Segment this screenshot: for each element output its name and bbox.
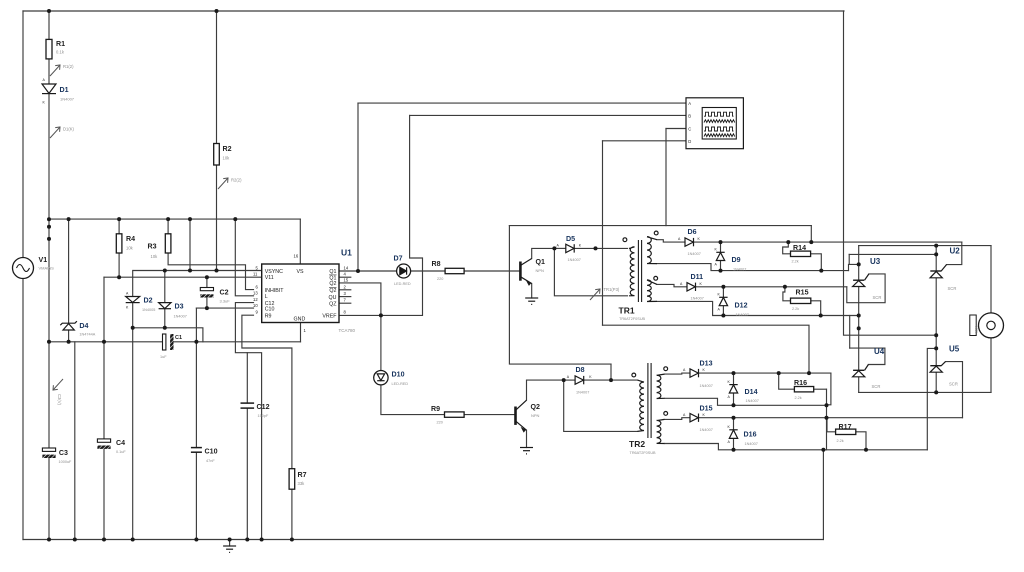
transistor Q2 <box>516 400 527 432</box>
probe R2(2) <box>218 178 228 189</box>
IC U1 TCA780 <box>262 264 339 323</box>
junction at 720.5,242.1 <box>719 240 723 244</box>
junction at 74.8,539.5 <box>73 538 77 542</box>
svg-text:R2: R2 <box>223 145 232 153</box>
svg-text:U5: U5 <box>949 345 960 354</box>
svg-text:GND: GND <box>294 317 306 323</box>
wire R17 left jog <box>827 418 836 432</box>
resistor R15 <box>791 298 811 303</box>
ground main <box>223 546 236 552</box>
svg-text:14: 14 <box>344 266 349 271</box>
diode D12 <box>719 297 727 305</box>
svg-text:2.2k: 2.2k <box>792 260 799 264</box>
svg-text:A: A <box>688 101 691 106</box>
wire scope D horizontal <box>603 140 687 142</box>
svg-text:D14: D14 <box>745 388 758 396</box>
wire R16 right jog <box>814 388 827 390</box>
wire D5 cathode row <box>574 247 627 249</box>
wire R16 left jog <box>779 373 795 389</box>
wire top frame <box>23 10 844 12</box>
junction at 858.7,328.4 <box>857 326 861 330</box>
wire D16 top stub <box>733 418 735 430</box>
junction at 733.5,405.3 <box>732 403 736 407</box>
wire D13 cathode row U4 gate net <box>699 372 831 374</box>
svg-text:R17: R17 <box>839 423 852 431</box>
svg-text:10k: 10k <box>151 254 159 259</box>
wire D15 cathode row U5 gate net <box>699 417 963 419</box>
wire pin3 stub <box>339 296 351 298</box>
resistor R16 <box>794 387 813 392</box>
wire VS pin stub <box>299 219 301 264</box>
svg-text:1N4007: 1N4007 <box>174 315 187 319</box>
capacitor C3 <box>42 448 55 458</box>
svg-text:NPN: NPN <box>531 413 540 418</box>
wire D1 down column <box>48 94 50 220</box>
wire U5 cathode feed riser <box>927 348 936 449</box>
diode D1 <box>42 84 56 94</box>
svg-text:Q2: Q2 <box>531 403 541 411</box>
wire motor bottom feed <box>990 338 992 393</box>
svg-text:1150: 1150 <box>975 326 979 333</box>
wire U3 column <box>858 246 860 281</box>
svg-text:TR1(P3): TR1(P3) <box>604 287 620 292</box>
svg-text:SCR: SCR <box>872 384 881 389</box>
junction at 49,219.3 <box>47 217 51 221</box>
svg-text:R14: R14 <box>793 244 806 252</box>
junction at 936.2,254.4 <box>934 252 938 256</box>
wire TR2 sec2 bottom row <box>665 444 928 450</box>
svg-text:C1: C1 <box>175 335 182 341</box>
transformer TR1 secondary2 coil <box>647 280 657 302</box>
svg-text:Q1: Q1 <box>329 269 336 275</box>
svg-text:2.2k: 2.2k <box>792 307 799 311</box>
junction at 784.9,286.8 <box>783 285 787 289</box>
svg-text:1N4007: 1N4007 <box>60 97 75 102</box>
resistor R9 <box>445 412 465 417</box>
ground Q1 <box>525 298 538 304</box>
svg-text:10k: 10k <box>223 156 231 161</box>
svg-text:1000uF: 1000uF <box>59 460 73 464</box>
wire U2 column <box>935 246 937 271</box>
resistor R3 <box>165 234 171 253</box>
wire column x261 <box>247 353 261 540</box>
wire R8 to Q1 base <box>464 270 520 272</box>
junction at 820.7,315.5 <box>819 314 823 318</box>
svg-text:11: 11 <box>253 272 258 277</box>
wire D14 top stub <box>733 373 735 385</box>
svg-text:V11: V11 <box>265 275 274 281</box>
wire C2 top stub <box>206 277 208 287</box>
wire GND pin stub <box>300 323 302 342</box>
svg-text:VSYNC: VSYNC <box>265 269 283 275</box>
transistor Q1 <box>520 259 531 286</box>
svg-text:D4: D4 <box>79 322 88 330</box>
diode D14 <box>729 385 737 393</box>
wire pin4 stub <box>339 276 351 278</box>
resistor R1 <box>46 39 52 59</box>
wire C4 to bus <box>103 449 105 540</box>
SCR U5 <box>930 362 945 373</box>
svg-text:D6: D6 <box>688 228 697 236</box>
svg-text:LED-RED: LED-RED <box>392 382 409 386</box>
wire U2 gate flag drop <box>947 242 962 265</box>
wire R7 to bus <box>291 489 293 539</box>
svg-text:QZ: QZ <box>329 301 337 307</box>
wire D10 bottom <box>381 385 445 415</box>
SCR U2 <box>930 265 946 278</box>
junction at 168.1,219.1 <box>166 217 170 221</box>
junction at 68.6,219.1 <box>67 217 71 221</box>
svg-text:U1: U1 <box>341 248 352 258</box>
polarity dot TR2 primary <box>632 373 636 377</box>
wire C3 to bus <box>48 458 50 540</box>
svg-text:12: 12 <box>253 297 258 302</box>
junction at 261.6,539.5 <box>260 538 264 542</box>
SCR U4 <box>853 365 869 377</box>
junction at 380.9,315.4 <box>379 313 383 317</box>
motor M1 <box>979 313 1004 338</box>
svg-text:B: B <box>688 114 691 119</box>
junction at 190,219.1 <box>188 217 192 221</box>
capacitor C10 <box>191 448 202 453</box>
junction at 196.4,341.8 <box>194 340 198 344</box>
junction at 611,380.1 <box>609 378 613 382</box>
wire sec1 net to U3 anode <box>849 264 859 270</box>
probe TR1(P3) <box>590 289 600 300</box>
svg-text:2.2k: 2.2k <box>795 396 802 400</box>
diode D6 <box>685 238 694 246</box>
junction at 247.3,539.5 <box>245 538 249 542</box>
junction at 826.5,417.7 <box>825 416 829 420</box>
svg-text:C4: C4 <box>116 439 125 447</box>
svg-text:D5: D5 <box>566 235 575 243</box>
svg-text:U4: U4 <box>874 347 885 356</box>
probe D1(K) <box>50 127 60 138</box>
diode D9 <box>716 252 724 260</box>
junction at 132.7,539.5 <box>131 538 135 542</box>
wire R17 right jog <box>856 432 866 450</box>
wire D8 anode drop to TR2 primary bottom <box>564 380 638 431</box>
svg-text:D2: D2 <box>144 297 153 305</box>
svg-text:C3: C3 <box>59 449 68 457</box>
wire U5 column <box>935 335 937 366</box>
diode D8 <box>575 376 584 384</box>
transformer TR1 primary coil <box>629 247 635 296</box>
wire Q1 collector riser <box>532 248 555 258</box>
junction at 49,11 <box>47 9 51 13</box>
junction at 164.8,270.5 <box>163 269 167 273</box>
wire Q1 output row pin14 <box>339 270 445 272</box>
SCR U3 <box>853 274 869 287</box>
wire motor top feed <box>990 246 992 313</box>
svg-text:TR6AT2F0SUB: TR6AT2F0SUB <box>630 451 657 455</box>
wire bridge bottom row <box>859 391 991 393</box>
LED D7 <box>397 264 411 278</box>
svg-text:1N4005: 1N4005 <box>142 308 155 312</box>
junction at 206.9,277.2 <box>205 275 209 279</box>
svg-text:1N4007: 1N4007 <box>700 428 713 432</box>
svg-text:R9: R9 <box>431 405 440 413</box>
wire U3 to U4 column <box>858 287 860 371</box>
junction at 49,341.8 <box>47 340 51 344</box>
junction at 190,270.5 <box>188 269 192 273</box>
wire Vcc bus <box>49 218 300 220</box>
wire R1 D1 column <box>48 11 50 39</box>
wire R4 top stub <box>118 219 120 234</box>
wire U5 to bridge bottom <box>935 372 937 392</box>
wire row y254 <box>849 253 936 255</box>
svg-text:R3: R3 <box>148 243 157 251</box>
wire row y254 drop <box>848 254 850 264</box>
svg-text:D8: D8 <box>576 366 585 374</box>
oscilloscope XSC1 <box>686 98 743 149</box>
wire D14 bottom stub <box>733 393 735 405</box>
junction at 104,341.8 <box>102 340 106 344</box>
svg-text:0.1k: 0.1k <box>56 50 65 55</box>
svg-text:VREF: VREF <box>322 314 337 320</box>
junction at 206.9,308.1 <box>205 306 209 310</box>
svg-text:TR1: TR1 <box>619 306 635 316</box>
oscilloscope screen <box>702 108 736 140</box>
svg-text:D12: D12 <box>735 302 748 310</box>
svg-text:D9: D9 <box>732 256 741 264</box>
wire bridge top row <box>859 245 991 247</box>
zener D4 <box>60 321 77 330</box>
motor label box <box>970 315 976 336</box>
svg-text:QU: QU <box>329 295 337 301</box>
wire C net left drop to D8 loop <box>509 226 611 365</box>
svg-text:1N4007: 1N4007 <box>746 399 759 403</box>
polarity dot TR1 primary <box>623 238 627 242</box>
capacitor C2 <box>200 288 213 298</box>
diode D5 <box>566 244 574 252</box>
junction at 858.7,264.4 <box>857 262 861 266</box>
wire scope A horizontal <box>358 102 686 104</box>
transformer TR1 secondary1 coil <box>647 237 657 264</box>
wire pin2 stub <box>339 289 351 291</box>
svg-text:D1: D1 <box>60 86 69 94</box>
svg-text:C10: C10 <box>265 307 275 313</box>
resistor R4 <box>116 234 122 253</box>
svg-text:1N4007: 1N4007 <box>745 442 758 446</box>
wire C2 bottom stub <box>206 298 208 309</box>
junction at 723.4,315.5 <box>721 314 725 318</box>
wire gnd row mid <box>174 341 301 343</box>
svg-text:D7: D7 <box>394 255 403 263</box>
svg-text:D11: D11 <box>691 273 704 281</box>
svg-text:NPN: NPN <box>536 268 545 273</box>
resistor R17 <box>836 429 856 434</box>
wire R1 to D1 <box>48 59 50 84</box>
wire U2 cathode to mid <box>935 278 937 335</box>
svg-text:SCR: SCR <box>873 295 882 300</box>
wire V11 row <box>104 276 262 278</box>
wire D4 bottom stub <box>68 330 70 342</box>
svg-text:R2(2): R2(2) <box>231 178 242 183</box>
wire C10 to bus <box>195 452 197 539</box>
svg-text:D10: D10 <box>392 371 405 379</box>
svg-text:LED-RED: LED-RED <box>394 282 411 286</box>
junction at 811.3,242.1 <box>809 240 813 244</box>
svg-text:R9: R9 <box>265 314 272 320</box>
diode D15 <box>690 414 699 422</box>
junction at 733.5,373.1 <box>732 371 736 375</box>
diode D2 <box>126 297 140 303</box>
probe C3(V) <box>53 379 63 390</box>
AC source V1 <box>13 258 34 279</box>
wire x826 strip vertical <box>826 389 828 450</box>
wire D9 bottom stub <box>720 261 722 271</box>
diode D13 <box>690 369 699 377</box>
wire R14 left jog <box>783 242 791 254</box>
svg-text:13: 13 <box>253 290 258 295</box>
resistor R2 <box>214 144 220 166</box>
junction at 788.3,242.1 <box>786 240 790 244</box>
svg-text:0.1uF: 0.1uF <box>116 450 126 454</box>
polarity dot TR2 secondary1 <box>664 367 668 371</box>
junction at 164.8,327.8 <box>163 326 167 330</box>
junction at 554.4,248.4 <box>552 246 556 250</box>
junction at 778.7,373.1 <box>777 371 781 375</box>
junction at 119.1,219.1 <box>117 217 121 221</box>
ground Q2 <box>520 448 533 454</box>
wire U4 gate feed drop <box>849 316 851 349</box>
svg-text:1N4007: 1N4007 <box>733 268 746 272</box>
svg-text:C10: C10 <box>205 448 218 456</box>
svg-text:R8: R8 <box>432 260 441 268</box>
transformer TR1 core <box>638 240 641 302</box>
wire pin7 stub <box>339 302 351 304</box>
svg-text:D3: D3 <box>175 303 184 311</box>
wire R15 left jog <box>783 287 791 301</box>
wire TR1 sec2 top to D11 <box>657 284 687 286</box>
wire TR2 sec1 top to D13 <box>665 373 691 374</box>
svg-text:Q2: Q2 <box>329 288 336 294</box>
wire scope C riser <box>665 129 667 226</box>
wire R14 right jog <box>811 254 822 271</box>
svg-text:1N4007: 1N4007 <box>736 313 749 317</box>
svg-text:VMAINS: VMAINS <box>39 266 55 271</box>
oscilloscope trace D <box>704 134 735 137</box>
svg-text:Q2: Q2 <box>329 281 336 287</box>
svg-text:1N4007: 1N4007 <box>568 258 581 262</box>
svg-text:L: L <box>265 294 268 300</box>
junction at 826.5,405.3 <box>825 403 829 407</box>
probe R1(2) <box>50 65 60 76</box>
wire Q1 emitter to gnd <box>531 284 533 299</box>
oscilloscope trace B <box>704 120 735 123</box>
junction at 132.7,327.8 <box>131 326 135 330</box>
wire D10 to R9 <box>380 315 382 370</box>
svg-text:C12: C12 <box>257 403 270 411</box>
svg-text:TCA780: TCA780 <box>339 328 356 333</box>
svg-text:C: C <box>688 127 691 132</box>
junction at 936.2,392.4 <box>934 390 938 394</box>
wire C12 to bus <box>246 408 248 539</box>
wire R3 bottom to INHIBIT jog <box>168 253 253 290</box>
transformer TR2 core <box>648 363 651 438</box>
wire U5 gate flag loop <box>946 362 963 418</box>
svg-text:Q1: Q1 <box>536 258 546 266</box>
wire gnd row left <box>49 341 163 343</box>
wire R15 right jog <box>811 301 821 316</box>
wire scope D to TR box bottom <box>603 325 810 373</box>
wire left frame upper <box>22 11 24 258</box>
wire bottom bus <box>23 539 823 541</box>
wire bus riser right <box>822 450 824 540</box>
wire D3 bottom stub <box>164 309 166 328</box>
svg-text:10: 10 <box>253 303 258 308</box>
junction at 49,238.9 <box>47 237 51 241</box>
svg-text:R4: R4 <box>126 235 135 243</box>
wire D11 cathode row U3 gate net <box>696 286 847 288</box>
diode D16 <box>729 430 737 439</box>
wire D13 net drop <box>827 373 831 405</box>
wire D8 cathode row <box>584 379 638 381</box>
junction at 358,271 <box>356 269 360 273</box>
svg-text:SCR: SCR <box>949 382 958 387</box>
svg-text:U3: U3 <box>870 257 881 266</box>
wire R4 bottom stub <box>118 253 120 277</box>
junction at 858.7,315.5 <box>857 314 861 318</box>
wire D6 cathode row U2 gate net <box>694 241 962 243</box>
svg-text:C3(V): C3(V) <box>57 394 62 406</box>
svg-text:U2: U2 <box>950 247 961 256</box>
wire D12 bottom stub <box>722 306 724 316</box>
polarity dot TR2 secondary2 <box>664 412 668 416</box>
wire U3 gate flag loop <box>847 274 885 303</box>
svg-text:33k: 33k <box>298 481 306 486</box>
wire D2 bottom column <box>132 303 134 540</box>
wire D9 top stub <box>720 242 722 252</box>
junction at 723.4,286.8 <box>721 285 725 289</box>
wire R9 to Q2 base <box>464 414 515 416</box>
svg-text:1uF: 1uF <box>160 355 167 359</box>
wire C net horizontal <box>509 225 811 227</box>
svg-text:16: 16 <box>294 254 299 259</box>
svg-text:R1(2): R1(2) <box>63 64 74 69</box>
wire U4 gate flag loop <box>850 348 885 364</box>
wire D2 D3 bottom row to gnd jog <box>133 328 203 342</box>
wire scope D riser <box>602 141 604 325</box>
svg-text:15: 15 <box>344 277 349 282</box>
diode D3 <box>159 303 171 309</box>
oscilloscope trace A <box>704 112 734 116</box>
svg-text:R7: R7 <box>298 471 307 479</box>
svg-text:150pF: 150pF <box>258 414 269 418</box>
svg-text:220: 220 <box>437 277 443 281</box>
wire pin15 row to D10 drop <box>339 283 381 316</box>
wire R3 top stub <box>167 219 169 234</box>
svg-text:1N4007: 1N4007 <box>691 297 704 301</box>
wire U4 to bridge bottom <box>858 377 860 393</box>
junction at 936.2,335.2 <box>934 333 938 337</box>
wire D3 top stub <box>164 271 166 303</box>
polarity dot TR1 secondary1 <box>654 231 658 235</box>
wire left frame lower <box>22 279 24 540</box>
junction at 49,226.7 <box>47 225 51 229</box>
svg-text:INHIBIT: INHIBIT <box>265 288 285 294</box>
junction at 720.5,270.6 <box>719 269 723 273</box>
wire R2 column top <box>216 11 218 144</box>
capacitor C4 <box>97 439 110 449</box>
capacitor C1 <box>163 334 174 350</box>
svg-text:R1: R1 <box>56 40 65 48</box>
wire TR2 sec2 top to D15 <box>665 418 691 420</box>
transformer TR2 secondary2 coil <box>657 419 665 443</box>
wire C net right drop <box>810 226 812 243</box>
junction at 809,373.1 <box>807 371 811 375</box>
